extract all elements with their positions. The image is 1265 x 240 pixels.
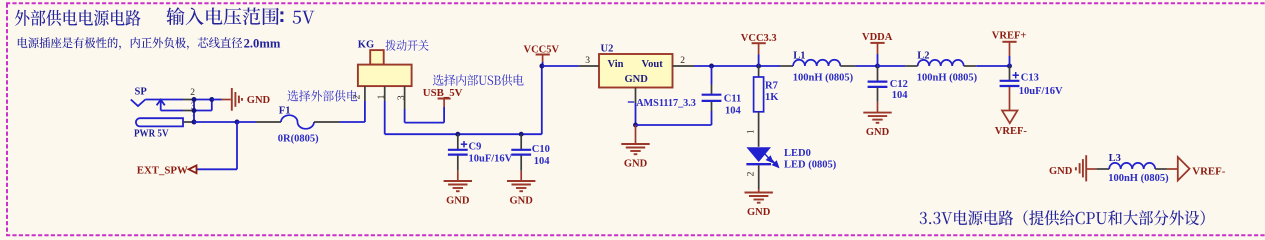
svg-text:1K: 1K — [765, 92, 779, 103]
node: U2 gnd — [633, 123, 638, 128]
wire L3 to VREF- port — [1167, 168, 1178, 170]
svg-text:VREF-: VREF- — [1192, 165, 1225, 177]
svg-text:1: 1 — [377, 94, 387, 99]
node: VDDA — [875, 64, 880, 69]
SP pin 2 — [183, 99, 194, 101]
svg-text:VREF+: VREF+ — [992, 31, 1027, 42]
capacitor C10 104 — [520, 134, 522, 149]
ground for C9 — [457, 171, 459, 181]
bottom caption: 3.3V电源电路（提供给CPU和大部分外设） — [920, 210, 1205, 225]
wire: F1 to KG pin2 — [340, 121, 365, 123]
title: 输入电压范围：5V — [166, 7, 279, 25]
svg-text:GND: GND — [247, 95, 271, 106]
switch pin 3 — [404, 86, 406, 109]
connector SP barrel — [136, 118, 183, 126]
ground for C12 — [877, 102, 879, 113]
wire: KG pin3 to USB_5V — [404, 109, 406, 123]
svg-text:GND: GND — [624, 158, 648, 169]
svg-text:1: 1 — [746, 129, 756, 134]
svg-text:GND: GND — [446, 195, 470, 206]
svg-text:2: 2 — [353, 94, 363, 99]
svg-text:10uF/16V: 10uF/16V — [469, 153, 513, 164]
U2 pin 2 — [673, 65, 695, 67]
SP pin 1 — [183, 121, 194, 123]
svg-text:C10: C10 — [532, 144, 550, 155]
wire: loop down to pin3 — [211, 100, 213, 111]
svg-text:0R(0805): 0R(0805) — [278, 134, 319, 145]
power port VREF- (right triangle) — [1178, 157, 1190, 181]
wire C13 to VREF- — [1009, 87, 1011, 111]
svg-text:GND: GND — [1049, 166, 1073, 177]
ground GND (bar symbol) — [231, 88, 233, 111]
svg-text:2.0mm: 2.0mm — [244, 37, 281, 51]
ground for LED — [758, 189, 760, 193]
note: 选择内部USB供电 — [433, 74, 524, 85]
svg-text:KG: KG — [358, 40, 374, 51]
svg-text:C13: C13 — [1021, 73, 1039, 84]
svg-text:GND: GND — [747, 207, 771, 218]
U2 pin 3 — [579, 65, 599, 67]
wire: VCC5V to U2 pin3 — [542, 65, 579, 67]
wire: KG pin1 to C9/C10 rail — [384, 101, 386, 134]
wire: U2 gnd to C11 bottom — [636, 124, 712, 126]
LED0 emission arrows — [764, 153, 779, 168]
wire: SP pins 2-3-1 tie vertical — [193, 100, 195, 123]
svg-text:Vout: Vout — [642, 59, 664, 70]
connector SP wiper arrow — [160, 101, 162, 111]
port EXT_SPW arrow — [189, 165, 197, 173]
node: VREF+ — [1007, 64, 1012, 69]
svg-text:100nH (0805): 100nH (0805) — [917, 72, 978, 83]
svg-text:VCC3.3: VCC3.3 — [741, 33, 777, 44]
power port VCC3.3 — [752, 42, 766, 44]
node: VCC5V — [539, 64, 544, 69]
node: VCC3.3/R7 — [756, 64, 761, 69]
svg-text:2: 2 — [680, 56, 685, 66]
svg-text:GND: GND — [866, 127, 890, 138]
capacitor C9 10uF/16V — [457, 134, 459, 149]
power port VDDA — [870, 42, 884, 44]
connector SP jack symbol — [131, 100, 146, 107]
capacitor C12 104 — [877, 66, 879, 81]
wire: EXT_SPW branch — [236, 122, 238, 169]
svg-text:R7: R7 — [765, 81, 778, 92]
svg-text:EXT_SPW: EXT_SPW — [137, 165, 188, 177]
U2 value AMS1117_3.3 — [628, 101, 634, 103]
U2 gnd pin wire — [635, 88, 637, 104]
svg-text:U2: U2 — [601, 44, 614, 55]
svg-text:VCC5V: VCC5V — [524, 45, 560, 56]
power port VREF+ — [1002, 41, 1016, 43]
svg-text:100nH (0805): 100nH (0805) — [1108, 173, 1169, 184]
svg-text:SP: SP — [135, 87, 148, 98]
switch pin 1 — [384, 86, 386, 101]
node: SP pin1 — [192, 120, 197, 125]
wire: rail up to VCC5V node — [541, 66, 543, 134]
svg-text:104: 104 — [892, 90, 909, 101]
node: C9 — [455, 132, 460, 137]
svg-text:3: 3 — [397, 95, 407, 100]
svg-text:PWR 5V: PWR 5V — [134, 129, 169, 140]
svg-text:C11: C11 — [724, 94, 742, 105]
svg-text:C12: C12 — [890, 79, 908, 90]
svg-text:C9: C9 — [469, 141, 482, 152]
wire: pin2 to GND branch — [194, 99, 212, 101]
power port USB_5V — [443, 99, 445, 108]
svg-text:GND: GND — [625, 74, 649, 85]
SP pin 3 — [183, 110, 194, 112]
svg-text:LED (0805): LED (0805) — [784, 160, 837, 171]
svg-text:AMS1117_3.3: AMS1117_3.3 — [636, 98, 696, 109]
node: gnd branch — [209, 97, 214, 102]
switch pin 2 — [364, 86, 366, 101]
R7 pin 1 to LED — [758, 112, 760, 147]
svg-text:VDDA: VDDA — [862, 32, 893, 43]
svg-text:10uF/16V: 10uF/16V — [1019, 86, 1063, 97]
svg-text:VREF-: VREF- — [995, 126, 1028, 137]
note: 选择外部供电 — [287, 90, 357, 101]
capacitor C11 104 — [711, 66, 713, 85]
wire: U2 pin2 3.3V rail — [694, 65, 780, 67]
svg-text:2: 2 — [746, 171, 756, 176]
switch KG body — [370, 50, 384, 65]
node: SP pin2 — [192, 97, 197, 102]
note: 电源插座是有极性的，内正外负极，芯线直径2.0mm — [18, 37, 242, 50]
power port VCC5V — [536, 54, 550, 56]
node: C10 — [519, 132, 524, 137]
node: C11 — [709, 64, 714, 69]
power port VREF- (down triangle) — [1002, 111, 1018, 124]
resistor R7 1K — [758, 66, 760, 77]
svg-text:104: 104 — [534, 156, 551, 167]
svg-text:104: 104 — [725, 106, 742, 117]
svg-text:USB_5V: USB_5V — [423, 87, 463, 99]
ground for C10 — [520, 171, 522, 181]
svg-text:3: 3 — [585, 56, 590, 66]
ground for U2 — [635, 125, 637, 144]
svg-text:LED0: LED0 — [784, 148, 811, 159]
wire gnd to L3 — [1086, 168, 1096, 170]
LED LED0 — [746, 147, 771, 162]
title: 外部供电电源电路 — [15, 10, 141, 26]
node: EXT_SPW branch — [235, 120, 240, 125]
wire to GND bars — [212, 99, 222, 101]
svg-text:GND: GND — [510, 195, 534, 206]
capacitor C13 10uF/16V — [1009, 66, 1011, 80]
node: SP pin3 — [192, 108, 197, 113]
svg-text:2: 2 — [190, 88, 195, 98]
LED pin 2 — [758, 165, 760, 189]
wire: barrel pin1 rail — [194, 121, 237, 123]
svg-text:Vin: Vin — [608, 59, 624, 70]
svg-text:100nH (0805): 100nH (0805) — [793, 72, 854, 83]
